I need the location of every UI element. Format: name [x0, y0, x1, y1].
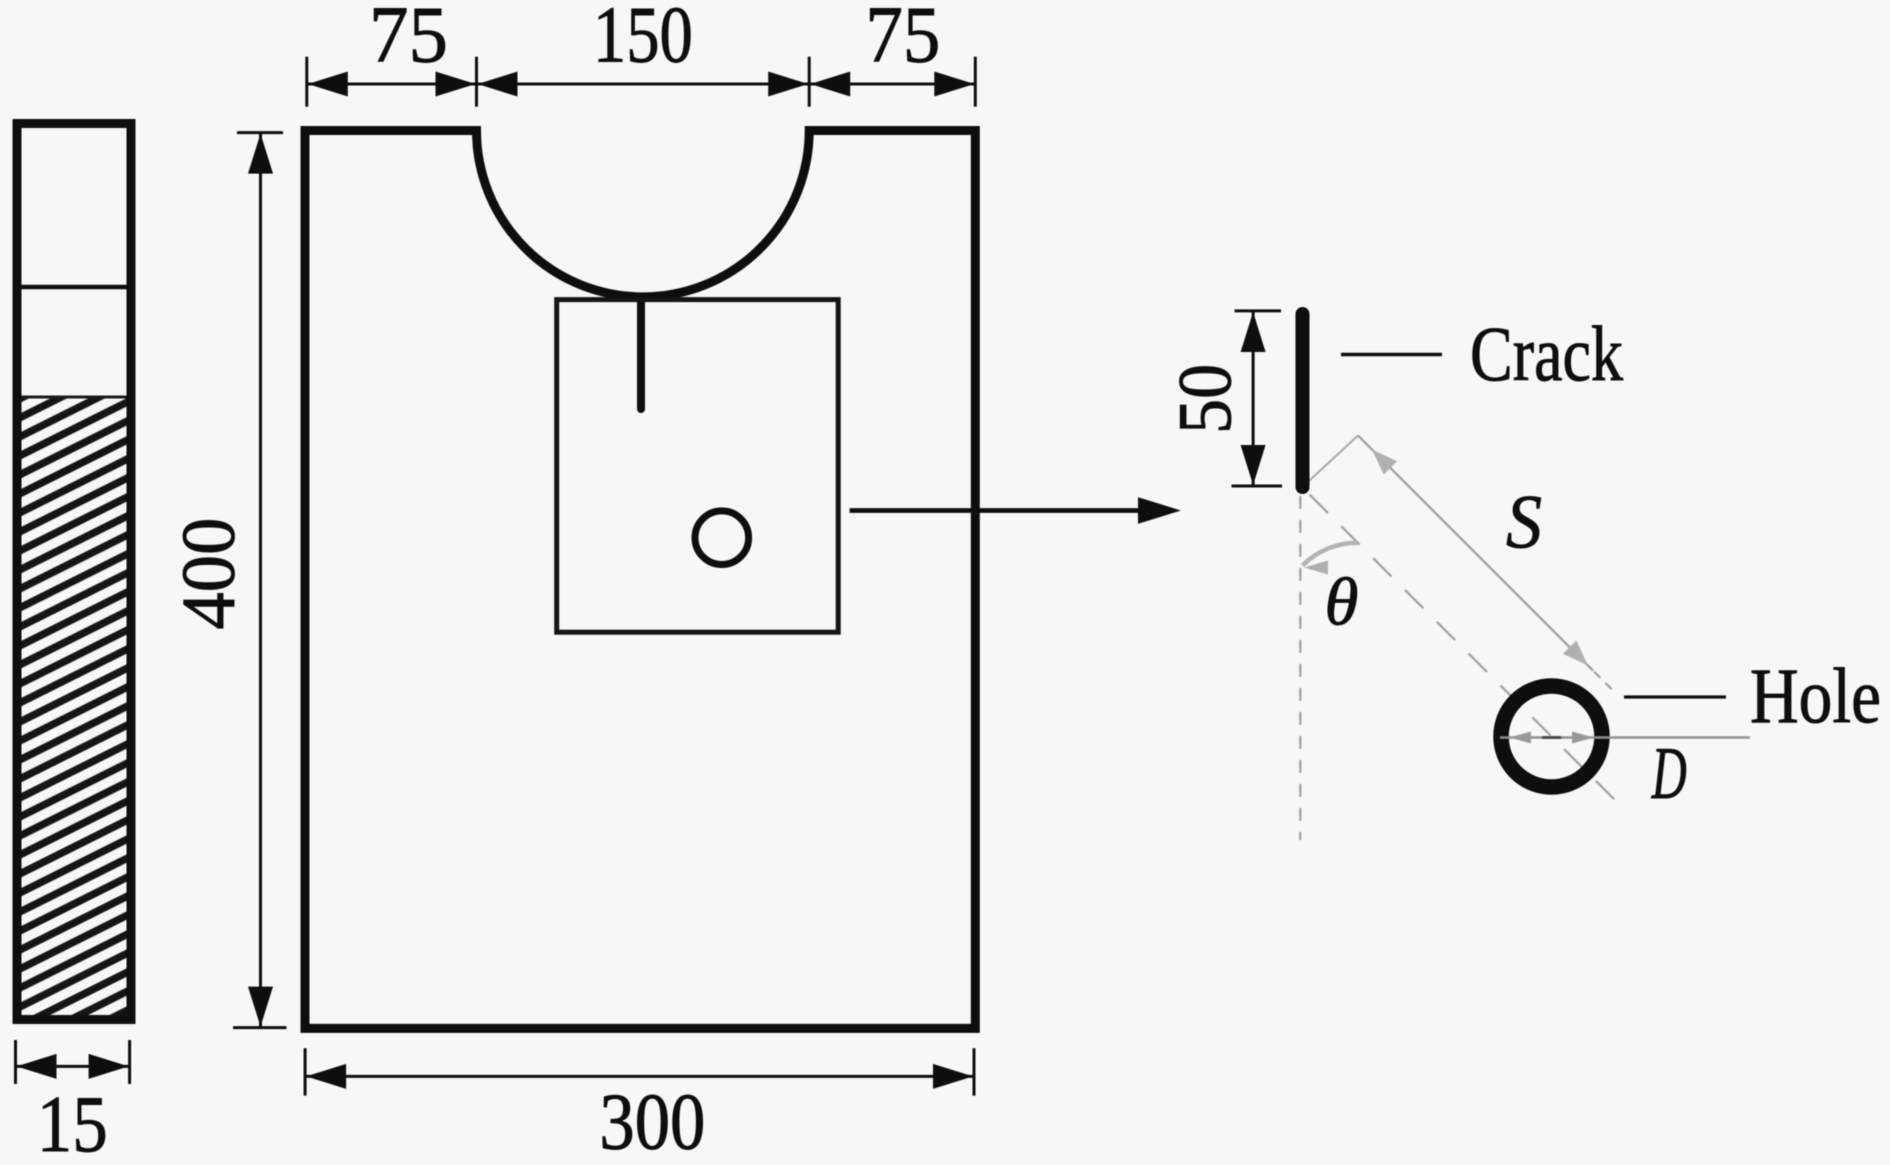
dim 300 arrow left	[306, 1064, 346, 1089]
detail: S extension line	[1304, 436, 1359, 487]
dim 15 arrow right	[89, 1054, 129, 1079]
crack in main view	[637, 299, 645, 409]
main plate outline with semicircular notch	[305, 131, 975, 1029]
dim 300 line	[305, 1075, 974, 1078]
crack leader line	[1341, 353, 1442, 357]
dim 15 extension tick left	[14, 1040, 17, 1084]
dim 50 top tick	[1235, 309, 1281, 312]
dim 50 arrow up	[1241, 312, 1266, 352]
top dim arrows at tick1	[308, 72, 348, 97]
dim 400 top tick	[237, 131, 283, 134]
side-view plate outline	[17, 124, 131, 1020]
dim 300 arrow right	[933, 1064, 973, 1089]
svg-text:75: 75	[865, 0, 940, 80]
svg-text:75: 75	[369, 0, 448, 80]
top dim arrow at tick4	[934, 72, 974, 97]
dim 400 arrow up	[248, 134, 273, 174]
dim 300 right tick	[973, 1048, 976, 1095]
hole in main view	[695, 511, 749, 565]
dim 50 bottom tick	[1232, 485, 1283, 488]
dim 400 line	[259, 133, 262, 1028]
top dim arrows at tick2	[436, 72, 476, 97]
dim 15 arrow left	[17, 1054, 57, 1079]
detail: S arrow bottom	[1563, 640, 1588, 665]
svg-text:50: 50	[1163, 364, 1247, 434]
svg-text:θ: θ	[1325, 564, 1359, 640]
top dim extension tick 4	[974, 57, 977, 107]
arrow to detail view	[850, 508, 1140, 513]
detail: D dimension line	[1500, 736, 1750, 739]
side-view hatch top line	[22, 396, 127, 399]
top dim extension tick 2	[475, 57, 478, 107]
hole leader line	[1624, 695, 1726, 698]
detail: S dimension line	[1358, 436, 1593, 671]
svg-text:S: S	[1506, 480, 1542, 564]
svg-text:D: D	[1651, 733, 1687, 815]
detail: dark center segment	[1542, 736, 1561, 739]
dim 400 bottom tick	[233, 1026, 287, 1029]
detail zoom box	[557, 300, 839, 633]
detail: hole circle	[1501, 686, 1602, 787]
side-view hatch region	[22, 397, 127, 1015]
top dim line	[307, 83, 976, 86]
svg-text:Crack: Crack	[1470, 310, 1623, 397]
side-view divider line	[22, 285, 127, 290]
svg-text:15: 15	[37, 1081, 108, 1165]
dim 400 arrow down	[248, 987, 273, 1027]
detail: 45deg dashed line crack tip to hole	[1310, 495, 1621, 806]
dim 15 line	[16, 1065, 130, 1068]
dim 300 left tick	[304, 1048, 307, 1095]
svg-text:150: 150	[593, 0, 693, 80]
dim 50 line	[1252, 311, 1255, 486]
dim 15 extension tick right	[128, 1040, 131, 1084]
detail: S overshoot dashes	[1594, 672, 1616, 694]
dim 50 arrow down	[1241, 445, 1266, 485]
top dim arrows at tick3	[768, 72, 808, 97]
top dim extension tick 1	[305, 57, 308, 107]
svg-text:300: 300	[599, 1079, 705, 1165]
detail: crack thick line	[1296, 314, 1310, 487]
detail: theta arc	[1303, 543, 1358, 566]
detail: D arrow right	[1572, 732, 1594, 744]
svg-text:Hole: Hole	[1750, 652, 1881, 739]
detail: vertical dashed centerline	[1299, 496, 1301, 840]
detail: S arrow top	[1372, 450, 1397, 475]
detail: theta arc arrowhead	[1304, 561, 1328, 575]
top dim extension tick 3	[808, 57, 811, 107]
svg-text:400: 400	[167, 518, 251, 630]
detail: D arrow left	[1509, 732, 1531, 744]
